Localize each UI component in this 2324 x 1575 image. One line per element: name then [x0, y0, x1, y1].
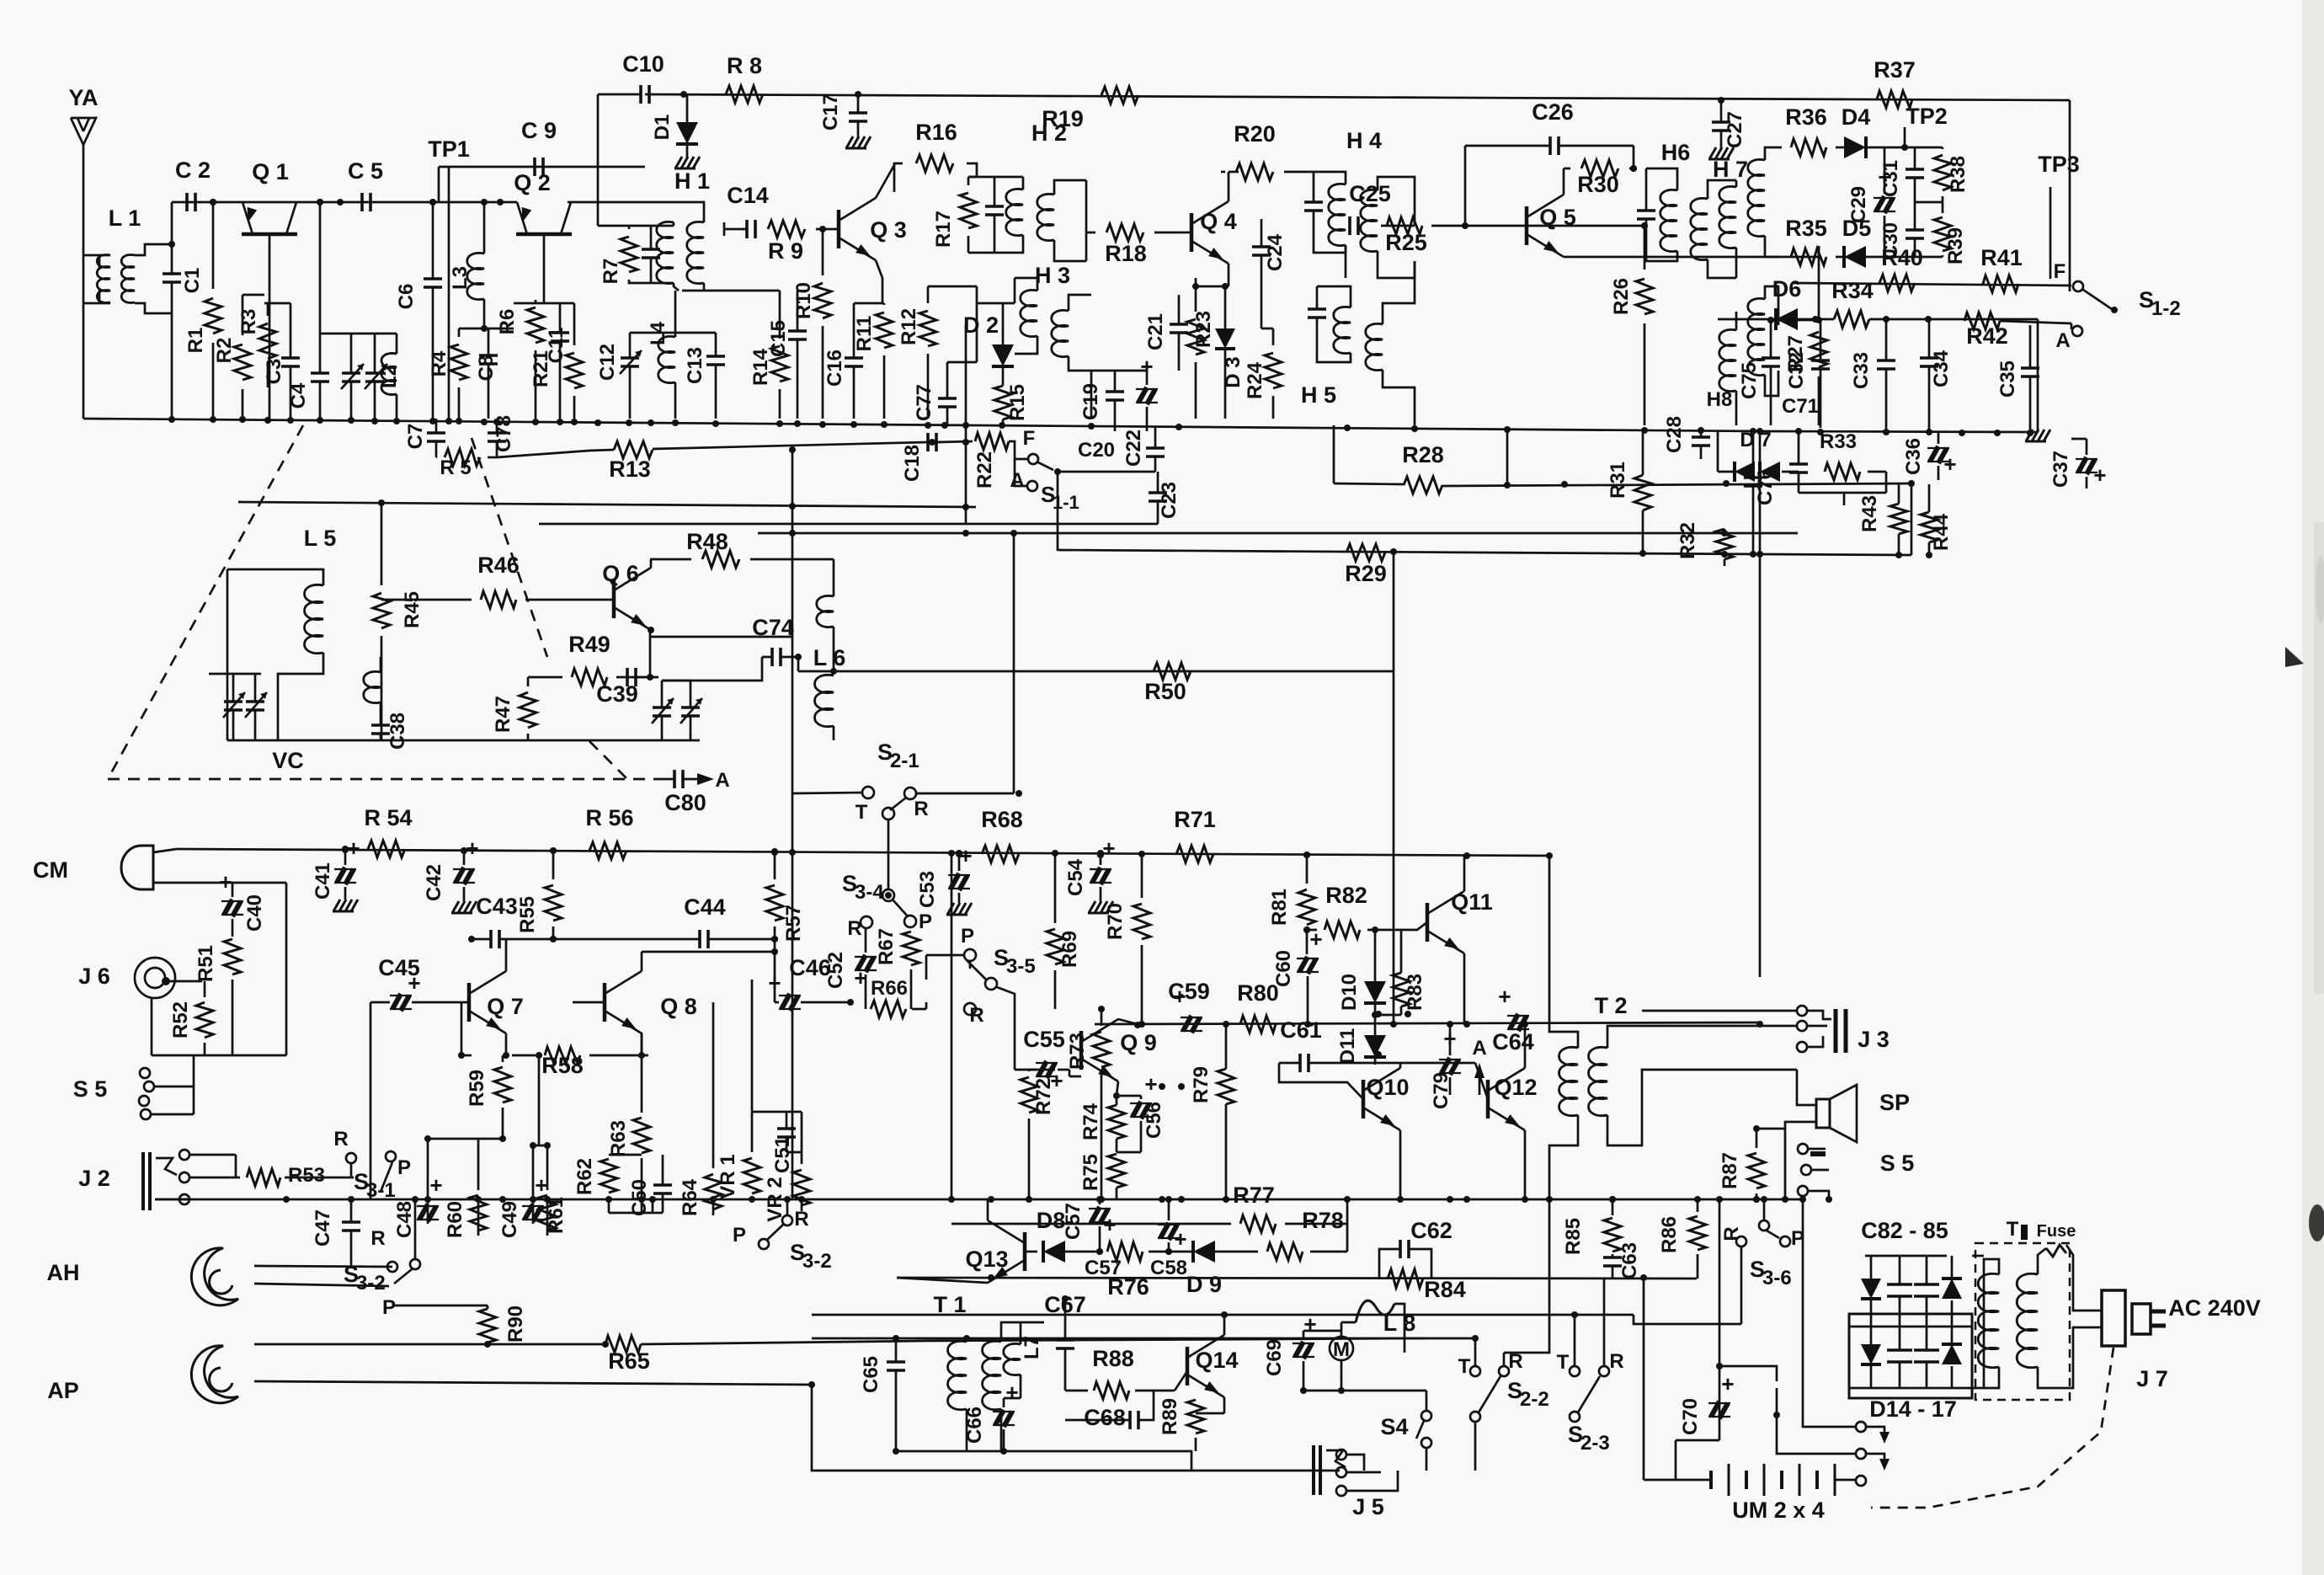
- svg-text:R89: R89: [1159, 1398, 1181, 1435]
- svg-text:C42: C42: [423, 864, 445, 901]
- svg-text:+: +: [219, 869, 232, 894]
- variable capacitor VC-c: [224, 700, 243, 703]
- variable capacitor VC-a: [342, 371, 360, 375]
- svg-text:C25: C25: [1349, 181, 1391, 206]
- svg-text:R62: R62: [573, 1158, 596, 1195]
- svg-text:Q10: Q10: [1366, 1075, 1409, 1100]
- svg-text:R30: R30: [1577, 172, 1619, 197]
- ground C53: [947, 903, 954, 915]
- svg-text:C60: C60: [1272, 950, 1295, 987]
- svg-text:H 1: H 1: [674, 168, 710, 194]
- svg-text:3-4: 3-4: [855, 881, 884, 904]
- svg-text:C12: C12: [596, 344, 619, 381]
- wire S1-1 wiper: [1058, 471, 1155, 473]
- svg-text:Q14: Q14: [1195, 1348, 1238, 1373]
- svg-text:C17: C17: [819, 93, 842, 131]
- svg-text:P: P: [397, 1156, 411, 1179]
- svg-text:R33: R33: [1820, 430, 1857, 453]
- svg-text:C46: C46: [789, 955, 831, 980]
- svg-text:C22: C22: [1122, 430, 1145, 467]
- svg-text:F: F: [2054, 260, 2066, 283]
- svg-text:R84: R84: [1424, 1277, 1466, 1302]
- svg-text:C 2: C 2: [175, 157, 211, 183]
- svg-text:C39: C39: [596, 681, 638, 707]
- svg-text:C66: C66: [963, 1407, 986, 1444]
- svg-text:TP2: TP2: [1906, 104, 1948, 129]
- svg-text:S 5: S 5: [1880, 1151, 1915, 1176]
- bridge diode c: [1861, 1344, 1881, 1364]
- svg-text:R63: R63: [607, 1120, 630, 1157]
- svg-text:R: R: [1609, 1350, 1623, 1373]
- capacitor H6 tune: [1637, 209, 1655, 212]
- ground right: [2026, 430, 2033, 441]
- svg-text:R85: R85: [1562, 1218, 1585, 1255]
- ground C27: [1709, 147, 1716, 159]
- svg-text:Q 8: Q 8: [660, 994, 697, 1019]
- svg-text:R: R: [333, 1128, 348, 1151]
- svg-text:T 1: T 1: [933, 1292, 966, 1317]
- variable capacitor C39a: [653, 706, 671, 709]
- inductor L5 link: [364, 671, 381, 702]
- wire AP lower row: [254, 1381, 1340, 1471]
- wire T1 bottom row: [894, 1451, 1191, 1471]
- svg-text:TP1: TP1: [428, 136, 470, 162]
- ground C54: [1089, 901, 1095, 913]
- svg-text:L 5: L 5: [304, 526, 337, 551]
- svg-text:J 7: J 7: [2136, 1366, 2168, 1391]
- svg-text:R6: R6: [496, 309, 519, 335]
- svg-text:R1: R1: [184, 328, 207, 354]
- vertical x1130: [951, 856, 953, 1199]
- svg-text:Q 4: Q 4: [1200, 209, 1237, 234]
- svg-text:+: +: [1144, 1071, 1157, 1097]
- svg-text:F: F: [1023, 427, 1036, 450]
- svg-text:S 5: S 5: [73, 1076, 108, 1102]
- capacitor H2 tune: [985, 205, 1004, 208]
- svg-text:D1: D1: [651, 115, 674, 141]
- svg-text:C48: C48: [393, 1201, 416, 1238]
- variable capacitor VC-d: [246, 700, 264, 703]
- capacitor C20 electrolytic: [1136, 387, 1158, 404]
- svg-text:+: +: [535, 1172, 547, 1198]
- svg-text:C10: C10: [622, 51, 664, 77]
- svg-text:C36: C36: [1902, 438, 1925, 475]
- svg-text:+: +: [1309, 926, 1322, 952]
- svg-text:P: P: [382, 1296, 396, 1319]
- svg-text:J 2: J 2: [78, 1166, 110, 1191]
- bridge cap b: [1914, 1283, 1939, 1286]
- junction dots main bottom bus: [283, 1196, 290, 1203]
- svg-text:R81: R81: [1268, 889, 1291, 926]
- junction dots row 633: [789, 530, 796, 537]
- wire row 622: [539, 523, 1158, 526]
- svg-text:H6: H6: [1661, 140, 1691, 165]
- svg-text:C34: C34: [1930, 350, 1953, 387]
- svg-text:C41: C41: [312, 862, 334, 900]
- svg-text:R64: R64: [679, 1178, 701, 1216]
- svg-text:2-3: 2-3: [1580, 1432, 1610, 1455]
- svg-text:R21: R21: [530, 350, 552, 387]
- svg-text:R: R: [370, 1227, 385, 1250]
- svg-text:L 6: L 6: [813, 645, 846, 670]
- ground C17: [846, 136, 853, 148]
- vertical ground right: [2037, 319, 2039, 432]
- svg-text:D6: D6: [1772, 276, 1802, 302]
- svg-text:C13: C13: [684, 347, 706, 384]
- svg-text:C29: C29: [1847, 186, 1870, 223]
- vertical right box b: [1802, 1199, 1804, 1402]
- wire row 633: [758, 532, 1798, 535]
- svg-text:+: +: [1173, 984, 1186, 1009]
- svg-text:R78: R78: [1302, 1208, 1344, 1233]
- svg-text:C16: C16: [824, 350, 846, 387]
- wire battery row: [1644, 1479, 1709, 1482]
- svg-text:C47: C47: [312, 1209, 334, 1247]
- svg-text:C44: C44: [684, 894, 726, 920]
- svg-text:L7: L7: [1021, 1336, 1043, 1359]
- svg-text:C26: C26: [1532, 99, 1574, 125]
- svg-text:Q 6: Q 6: [602, 561, 639, 586]
- svg-text:T 2: T 2: [1594, 993, 1627, 1018]
- variable capacitor C39b: [681, 706, 700, 709]
- ground C41: [333, 900, 340, 911]
- svg-text:C62: C62: [1410, 1218, 1452, 1243]
- svg-text:C58: C58: [1150, 1257, 1187, 1279]
- svg-text:L 1: L 1: [109, 206, 141, 231]
- svg-text:C 9: C 9: [521, 118, 557, 143]
- svg-text:D11: D11: [1336, 1028, 1359, 1065]
- svg-text:J 3: J 3: [1858, 1027, 1890, 1052]
- svg-text:C 5: C 5: [348, 158, 383, 184]
- svg-text:R: R: [847, 917, 861, 940]
- svg-text:R47: R47: [492, 696, 514, 733]
- capacitor H5 tune: [1308, 307, 1326, 311]
- svg-text:R11: R11: [853, 316, 876, 352]
- svg-text:C8: C8: [475, 355, 498, 382]
- svg-text:+: +: [1721, 1371, 1734, 1396]
- svg-text:C53: C53: [916, 871, 939, 908]
- svg-text:+: +: [347, 836, 360, 861]
- svg-text:C18: C18: [901, 445, 924, 482]
- svg-text:R16: R16: [915, 120, 957, 145]
- junction dots R13 row: [789, 446, 796, 453]
- wire Q6 emitter: [649, 630, 652, 677]
- svg-text:SP: SP: [1879, 1090, 1910, 1115]
- svg-text:C77: C77: [913, 384, 935, 421]
- svg-text:R76: R76: [1107, 1274, 1149, 1300]
- svg-text:R: R: [794, 1208, 808, 1231]
- junction dots Q9 row: [1138, 1021, 1145, 1028]
- svg-text:R71: R71: [1174, 807, 1216, 832]
- svg-text:+: +: [408, 970, 420, 996]
- svg-text:+: +: [2093, 462, 2106, 488]
- svg-text:Q11: Q11: [1451, 889, 1493, 915]
- svg-text:R90: R90: [504, 1305, 527, 1343]
- wire C9 row: [439, 166, 645, 168]
- svg-text:VR 1: VR 1: [717, 1154, 739, 1199]
- svg-text:C68: C68: [1084, 1405, 1126, 1430]
- svg-text:R3: R3: [237, 309, 260, 335]
- svg-text:C7: C7: [404, 424, 427, 450]
- svg-text:R13: R13: [609, 456, 651, 482]
- svg-text:R52: R52: [169, 1001, 192, 1038]
- bridge cap a: [1887, 1283, 1912, 1286]
- svg-text:VR 2: VR 2: [764, 1177, 786, 1221]
- svg-text:+: +: [429, 1172, 442, 1198]
- svg-text:R31: R31: [1607, 462, 1629, 499]
- wire L6 to R50: [798, 670, 876, 673]
- capacitor H4 tune: [1304, 200, 1323, 204]
- svg-text:C35: C35: [1996, 360, 2019, 398]
- svg-text:D10: D10: [1338, 974, 1361, 1011]
- svg-text:R39: R39: [1944, 227, 1967, 264]
- svg-text:Q12: Q12: [1494, 1075, 1537, 1100]
- svg-text:C1: C1: [181, 268, 204, 294]
- svg-text:R53: R53: [288, 1164, 325, 1187]
- bridge bottom wire: [1849, 1387, 1972, 1390]
- svg-text:C4: C4: [287, 382, 310, 408]
- svg-text:R35: R35: [1785, 216, 1827, 241]
- vertical right box a: [1719, 1199, 1721, 1440]
- bridge diode b: [1942, 1279, 1962, 1299]
- bridge row2 wire: [1849, 1326, 1972, 1328]
- svg-text:R70: R70: [1104, 903, 1127, 940]
- svg-text:T: T: [1557, 1351, 1570, 1374]
- vertical far right top: [2069, 100, 2071, 291]
- svg-text:UM 2 x 4: UM 2 x 4: [1732, 1498, 1825, 1523]
- svg-text:AH: AH: [47, 1260, 80, 1285]
- svg-text:R51: R51: [195, 945, 217, 982]
- wire S3-2 to R90: [392, 1305, 488, 1307]
- wire tuning rail: [320, 333, 397, 335]
- svg-text:C57: C57: [1062, 1203, 1085, 1240]
- wire AP row: [254, 1343, 605, 1346]
- svg-text:R67: R67: [875, 928, 898, 965]
- svg-text:Q 3: Q 3: [870, 217, 907, 243]
- svg-text:3-2: 3-2: [356, 1272, 386, 1295]
- svg-text:R26: R26: [1610, 278, 1633, 315]
- svg-text:C33: C33: [1850, 352, 1873, 389]
- svg-text:3-5: 3-5: [1006, 955, 1036, 978]
- svg-text:R 9: R 9: [768, 238, 803, 264]
- vertical right feed: [1759, 431, 1762, 977]
- wire main bottom bus: [155, 1199, 1803, 1201]
- junction dots audio bus: [342, 846, 349, 853]
- svg-text:R22: R22: [973, 451, 996, 489]
- svg-text:T: T: [856, 801, 868, 824]
- dashed VC outline: [108, 425, 303, 779]
- variable capacitor VC-b: [365, 371, 384, 375]
- wire R13 C18 row: [497, 450, 614, 457]
- svg-text:3-2: 3-2: [802, 1250, 832, 1273]
- svg-text:+: +: [466, 836, 478, 861]
- wire J2-AH row: [254, 1266, 392, 1267]
- svg-text:H 2: H 2: [1031, 120, 1067, 146]
- svg-text:R18: R18: [1105, 241, 1147, 266]
- bridge diode a: [1861, 1279, 1881, 1299]
- svg-text:R82: R82: [1325, 883, 1367, 908]
- svg-text:+: +: [1174, 1226, 1186, 1252]
- svg-text:C65: C65: [860, 1356, 882, 1393]
- svg-text:R79: R79: [1190, 1066, 1213, 1103]
- svg-text:C80: C80: [664, 790, 706, 815]
- bridge diode d: [1942, 1344, 1962, 1364]
- svg-text:Fuse: Fuse: [2037, 1222, 2076, 1241]
- svg-text:J 6: J 6: [78, 964, 110, 989]
- svg-text:R 8: R 8: [727, 53, 762, 78]
- svg-text:T: T: [1458, 1355, 1471, 1378]
- ground C42: [452, 901, 459, 913]
- svg-text:C14: C14: [727, 183, 769, 208]
- wire T1 top row: [812, 1337, 1473, 1340]
- svg-text:Q 7: Q 7: [487, 994, 524, 1019]
- svg-text:R48: R48: [686, 529, 728, 554]
- svg-text:3-6: 3-6: [1762, 1267, 1792, 1289]
- svg-text:R: R: [914, 798, 928, 820]
- vertical battery feed: [1643, 1278, 1645, 1480]
- wire q7 base feed: [461, 1002, 463, 1055]
- svg-text:C28: C28: [1663, 416, 1686, 453]
- vertical S2-1 R feed: [1013, 533, 1015, 793]
- wire Q1 row: [172, 201, 502, 204]
- svg-text:C6: C6: [395, 284, 418, 310]
- svg-text:1-2: 1-2: [2151, 297, 2181, 320]
- svg-text:C51: C51: [771, 1136, 794, 1173]
- wire osc bottom: [227, 739, 700, 742]
- svg-text:AP: AP: [47, 1378, 79, 1403]
- svg-text:D14 - 17: D14 - 17: [1869, 1396, 1957, 1422]
- svg-text:C20: C20: [1078, 439, 1115, 462]
- svg-text:C71: C71: [1782, 395, 1819, 418]
- svg-text:R34: R34: [1831, 278, 1874, 303]
- svg-text:C49: C49: [498, 1201, 521, 1238]
- vertical mid-right feed: [1393, 553, 1395, 1024]
- svg-text:R77: R77: [1233, 1183, 1275, 1208]
- svg-text:R36: R36: [1785, 104, 1827, 130]
- vertical C23 column: [965, 325, 967, 524]
- svg-text:C82 - 85: C82 - 85: [1861, 1218, 1948, 1243]
- svg-text:P: P: [961, 925, 974, 948]
- vertical S2-1 T feed: [792, 449, 794, 1199]
- svg-text:H 3: H 3: [1035, 263, 1070, 288]
- wire lower right: [1607, 1314, 1634, 1316]
- svg-text:R: R: [1720, 1226, 1743, 1241]
- svg-text:C24: C24: [1264, 233, 1287, 271]
- svg-text:M: M: [1333, 1338, 1350, 1361]
- svg-text:R 54: R 54: [364, 805, 412, 830]
- svg-text:T: T: [2007, 1218, 2019, 1241]
- svg-text:R29: R29: [1345, 561, 1387, 586]
- svg-text:R86: R86: [1658, 1216, 1681, 1253]
- svg-text:R57: R57: [782, 905, 805, 942]
- svg-text:C64: C64: [1492, 1029, 1534, 1054]
- svg-text:D4: D4: [1842, 104, 1871, 130]
- junction dots S3 row: [378, 499, 385, 506]
- wire R50 row: [876, 670, 1394, 673]
- svg-text:R37: R37: [1874, 57, 1916, 83]
- svg-text:YA: YA: [68, 85, 98, 110]
- wire R29 row: [1058, 550, 1911, 555]
- svg-text:R12: R12: [898, 308, 920, 345]
- junction dots other rows: [963, 1335, 970, 1342]
- svg-text:+: +: [1102, 836, 1115, 861]
- wire R76 D9 row: [897, 1278, 1697, 1279]
- svg-text:R75: R75: [1079, 1154, 1102, 1191]
- svg-text:Q 2: Q 2: [514, 170, 551, 195]
- junction dots top ground bus: [168, 416, 175, 423]
- wire Q6 emitter to T feed: [651, 636, 792, 638]
- svg-text:R66: R66: [871, 977, 908, 1000]
- svg-text:C54: C54: [1064, 858, 1087, 896]
- svg-text:D 2: D 2: [963, 312, 999, 338]
- svg-text:R45: R45: [401, 591, 424, 628]
- svg-text:C55: C55: [1023, 1027, 1065, 1052]
- svg-text:R59: R59: [466, 1070, 488, 1107]
- svg-text:P: P: [733, 1224, 746, 1247]
- battery connector circles: [1856, 1422, 1866, 1432]
- svg-text:VC: VC: [272, 748, 304, 773]
- svg-text:R49: R49: [568, 632, 610, 657]
- svg-text:C21: C21: [1144, 313, 1167, 350]
- svg-text:C40: C40: [243, 894, 266, 932]
- svg-text:Q 9: Q 9: [1120, 1030, 1157, 1055]
- svg-text:R43: R43: [1858, 495, 1881, 532]
- svg-text:R88: R88: [1092, 1346, 1134, 1371]
- svg-text:2-2: 2-2: [1520, 1388, 1549, 1411]
- wire battery to bridge: [1803, 1402, 1856, 1427]
- svg-text:H 5: H 5: [1301, 382, 1336, 408]
- svg-text:R10: R10: [792, 282, 815, 319]
- svg-text:R40: R40: [1881, 245, 1923, 270]
- svg-text:C15: C15: [767, 320, 790, 357]
- svg-text:+: +: [1943, 451, 1956, 477]
- svg-text:A: A: [715, 769, 729, 792]
- svg-text:R17: R17: [932, 211, 955, 248]
- svg-text:S4: S4: [1380, 1414, 1408, 1439]
- svg-text:R68: R68: [981, 807, 1023, 832]
- svg-text:H 4: H 4: [1346, 128, 1382, 153]
- svg-text:C43: C43: [476, 894, 518, 919]
- svg-text:R 56: R 56: [585, 805, 633, 830]
- svg-text:R32: R32: [1676, 522, 1699, 559]
- svg-text:2-1: 2-1: [890, 750, 919, 772]
- svg-text:R55: R55: [516, 896, 539, 933]
- svg-text:J 5: J 5: [1352, 1494, 1384, 1519]
- svg-text:P: P: [919, 910, 932, 933]
- svg-text:AC 240V: AC 240V: [2168, 1295, 2261, 1321]
- svg-text:R4: R4: [428, 350, 450, 376]
- svg-text:TP3: TP3: [2038, 152, 2080, 177]
- motor M: [1330, 1337, 1353, 1360]
- wire to bridge: [1719, 1366, 1777, 1381]
- svg-text:+: +: [1498, 984, 1511, 1009]
- svg-text:A: A: [1010, 469, 1024, 492]
- svg-text:C61: C61: [1280, 1017, 1322, 1043]
- svg-text:C69: C69: [1263, 1339, 1286, 1376]
- svg-text:C3: C3: [263, 359, 285, 385]
- capacitor H1 tune: [642, 248, 660, 251]
- wire top ground bus: [83, 419, 2038, 432]
- wire AH row: [254, 1284, 389, 1286]
- svg-text:C63: C63: [1618, 1242, 1641, 1279]
- svg-text:R28: R28: [1402, 442, 1444, 467]
- junction dots Q1 row: [210, 199, 216, 206]
- wire main top bus: [645, 94, 2070, 100]
- wire lower row: [812, 1314, 1607, 1316]
- svg-text:C38: C38: [386, 713, 409, 750]
- svg-text:R41: R41: [1980, 245, 2023, 270]
- bridge cap c: [1887, 1348, 1912, 1352]
